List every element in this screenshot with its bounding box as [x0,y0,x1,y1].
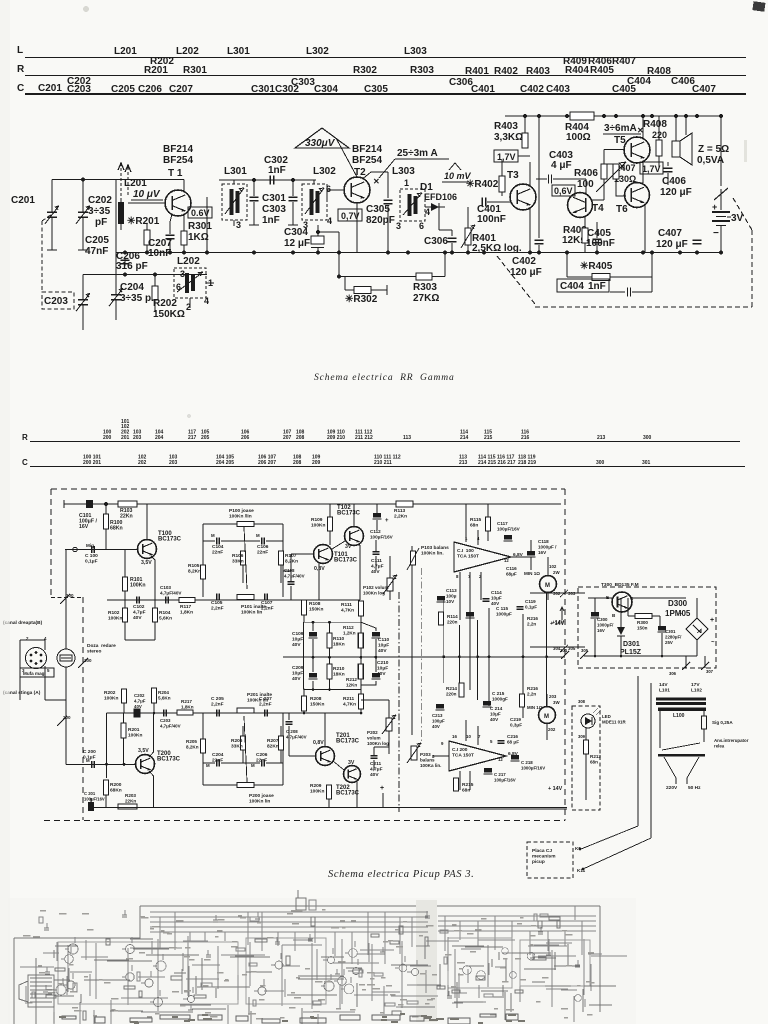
capacitor C210 [372,673,380,678]
svg-text:R205: R205 [186,739,197,744]
svg-text:picup: picup [532,859,545,865]
capacitor C207b [264,710,266,717]
svg-text:L102: L102 [691,688,702,694]
tone network upper [203,523,283,525]
+14V rail [566,504,568,808]
svg-text:C402: C402 [520,84,544,95]
svg-text:BF254: BF254 [352,155,382,166]
DIN connector [26,648,47,669]
picup connection lines [637,676,639,826]
svg-text:8,2Kn: 8,2Kn [188,569,201,575]
resistor R200 [104,780,109,795]
mains primary [664,757,676,784]
svg-text:R115: R115 [470,517,482,523]
power box bottom rail [584,655,697,657]
svg-text:22nF: 22nF [212,758,223,764]
resistor R104 [153,608,158,622]
capacitor C304 [316,230,320,234]
svg-text:3V: 3V [348,760,355,766]
op-amp CI100 [454,542,511,572]
wire L202 to rail [206,197,208,253]
op-amp shared columns [443,598,445,683]
svg-text:C109: C109 [292,631,304,637]
svg-text:150Kn: 150Kn [310,702,324,708]
svg-text:R209: R209 [310,783,322,789]
svg-text:Ans.intrerupator: Ans.intrerupator [714,738,749,743]
svg-text:−: − [713,228,719,239]
svg-text:209: 209 [312,460,321,466]
svg-text:Mig: Mig [86,543,94,548]
svg-text:R301: R301 [188,221,212,232]
svg-text:L: L [17,45,23,56]
svg-text:✕: ✕ [373,177,380,186]
svg-text:16V: 16V [538,550,547,555]
svg-text:C407: C407 [692,84,716,95]
capacitor C112 [373,513,381,518]
svg-text:200: 200 [103,435,112,441]
svg-text:218 219: 218 219 [518,460,536,466]
svg-text:L100: L100 [673,713,685,719]
svg-text:C.I 200: C.I 200 [452,747,468,753]
capacitor C107 [264,594,266,601]
svg-text:C306: C306 [424,236,448,247]
svg-text:M: M [544,714,549,720]
svg-text:68μF: 68μF [506,572,517,577]
voltage 0.6V [188,207,212,218]
svg-text:C406: C406 [662,176,686,187]
svg-text:C407: C407 [658,228,682,239]
svg-text:1000μF: 1000μF [496,612,512,617]
svg-text:C: C [22,458,28,467]
svg-text:R210: R210 [333,666,345,672]
svg-text:C300: C300 [597,617,608,622]
svg-text:1PM05: 1PM05 [665,609,691,618]
resistor R204 [152,688,157,703]
svg-text:25V: 25V [665,640,673,645]
fuse [702,716,707,729]
svg-text:214 215 216 217: 214 215 216 217 [478,460,516,466]
svg-text:R200: R200 [110,782,122,788]
svg-text:100μF: 100μF [432,719,445,724]
svg-text:R105: R105 [188,563,200,569]
audio top rail [505,115,722,117]
resistor R213 LED box [572,706,600,810]
svg-text:203: 203 [133,435,142,441]
svg-text:✳R201: ✳R201 [127,216,160,227]
svg-text:T5: T5 [614,135,626,146]
svg-text:C207: C207 [169,84,193,95]
lower bottom rail [91,807,567,809]
capacitor C108 [288,581,295,583]
resistor R112 [360,622,362,633]
transistor T4 [568,193,593,218]
PAS3 dashed border [51,488,565,490]
capacitor C102 [136,597,138,604]
svg-text:100Ka lin.: 100Ka lin. [420,763,441,768]
svg-text:C113: C113 [446,588,457,593]
svg-text:C 218: C 218 [521,760,533,765]
label mufa mag [20,668,54,677]
svg-text:1nF: 1nF [262,215,280,226]
svg-text:10 μV: 10 μV [133,189,161,200]
svg-text:Schema electrica Picup PAS 3.: Schema electrica Picup PAS 3. [328,869,474,880]
svg-text:10V: 10V [446,599,455,604]
resistor R105 [201,565,206,579]
capacitor C201 [51,180,53,213]
svg-text:B: B [612,613,616,618]
svg-text:6: 6 [176,282,181,292]
mid rail 2 [359,545,361,600]
svg-text:100μF/16V: 100μF/16V [497,527,521,532]
svg-text:C108: C108 [284,568,295,573]
svg-text:R303: R303 [410,65,434,76]
svg-text:120 μF: 120 μF [656,239,688,250]
resistor R404 [570,112,594,120]
svg-text:1,7V: 1,7V [497,152,516,162]
svg-text:220: 220 [652,130,667,140]
svg-text:L302: L302 [306,46,329,57]
wire triangle to T2 [336,138,357,177]
svg-text:MIN 1Ω: MIN 1Ω [524,571,540,576]
transistor T100 [138,540,157,559]
capacitor C105 [216,594,218,601]
transistor T201 [316,747,335,766]
svg-text:M: M [256,533,260,538]
diode D301 [617,627,625,635]
svg-text:0,1μF: 0,1μF [525,605,537,610]
svg-text:R408: R408 [643,119,667,130]
svg-text:R201: R201 [144,65,168,76]
svg-text:16: 16 [452,734,457,739]
svg-text:202: 202 [138,460,147,466]
bottom rail oamp [430,808,567,810]
voltage 0.6V T4 [552,185,575,196]
svg-text:100Kn: 100Kn [130,583,146,589]
svg-text:R300: R300 [637,620,648,625]
svg-text:8,2Kn: 8,2Kn [186,745,199,750]
wire T2 collector [363,172,388,179]
wire T202 emitter [356,780,358,808]
svg-text:1000μF /: 1000μF / [538,545,557,550]
svg-text:2: 2 [479,574,482,579]
svg-text:100μ: 100μ [446,594,457,599]
svg-text:22Kn: 22Kn [120,514,133,520]
svg-text:22nF: 22nF [256,758,267,764]
svg-text:L202: L202 [176,46,199,57]
svg-text:✳R405: ✳R405 [580,261,613,272]
svg-text:C403: C403 [546,84,570,95]
svg-text:BC173C: BC173C [334,558,358,564]
svg-text:stereo: stereo [87,649,101,655]
wire T5 base to resistors [604,149,624,151]
svg-text:C219: C219 [510,717,521,722]
main supply rail top [64,503,561,505]
svg-text:P103 balans: P103 balans [421,545,449,551]
svg-text:68Kn: 68Kn [110,526,123,532]
svg-text:305: 305 [581,648,589,653]
svg-text:C201: C201 [11,195,35,206]
capacitor C302 [269,176,271,185]
svg-text:pF: pF [95,217,107,228]
svg-text:R114: R114 [447,614,458,619]
svg-text:17V: 17V [691,682,700,688]
svg-text:203: 203 [549,694,557,699]
svg-text:R402: R402 [494,66,518,77]
svg-text:R212: R212 [346,677,357,682]
svg-text:68n: 68n [462,788,470,794]
svg-text:10μF: 10μF [377,666,388,672]
svg-text:1,8Kn: 1,8Kn [181,705,194,710]
svg-text:5: 5 [47,668,50,673]
svg-text:120 μF: 120 μF [660,187,692,198]
power supply dashed box [578,587,716,668]
svg-text:100Kn lin: 100Kn lin [249,799,270,805]
svg-text:0,6V: 0,6V [554,186,573,196]
svg-text:820pF: 820pF [366,215,395,226]
tone network lower [202,713,204,785]
transformer L100 [658,708,706,711]
svg-text:C206: C206 [138,84,162,95]
svg-text:203: 203 [169,460,178,466]
resistor R117 [179,598,195,603]
svg-text:10μF: 10μF [378,643,389,649]
svg-text:40V: 40V [378,648,387,654]
pot R401 [465,228,471,245]
svg-text:C204: C204 [212,752,224,758]
svg-text:volum: volum [367,736,381,741]
svg-text:EFD106: EFD106 [424,192,457,202]
svg-text:C301: C301 [262,193,286,204]
svg-text:2,2nF: 2,2nF [261,606,274,612]
capacitor C204 variable [115,275,117,295]
svg-text:BC173C: BC173C [157,757,181,763]
svg-text:R109: R109 [311,517,323,523]
svg-text:2,5KΩ log.: 2,5KΩ log. [472,243,522,254]
svg-text:C301: C301 [251,84,275,95]
svg-text:2,2nF: 2,2nF [211,606,224,612]
resistor R214 [459,683,464,697]
resistor R103 [118,501,137,507]
svg-text:3: 3 [396,221,401,231]
svg-text:M: M [86,758,90,763]
resistor R206 [241,736,246,750]
svg-text:P200 joase: P200 joase [249,793,274,799]
svg-text:22nF: 22nF [257,550,268,556]
svg-text:40V: 40V [490,717,499,722]
svg-text:2,2nF: 2,2nF [259,702,272,708]
svg-text:mecanism: mecanism [532,854,555,860]
svg-text:TCA 150T: TCA 150T [457,554,479,560]
resistor R303 [416,273,432,280]
svg-text:100Kn: 100Kn [128,733,142,739]
svg-text:40V: 40V [371,569,380,575]
svg-text:2W: 2W [553,570,560,575]
svg-text:100Ω: 100Ω [566,132,591,143]
svg-text:C303: C303 [291,77,315,88]
svg-text:R206: R206 [231,738,243,744]
svg-text:C117: C117 [497,521,508,526]
svg-text:C 200: C 200 [83,749,96,755]
svg-text:4: 4 [477,536,480,541]
transistor T6 [625,183,650,208]
faint left connector [140,905,600,907]
svg-text:C401: C401 [471,84,495,95]
svg-text:214: 214 [460,435,469,441]
svg-text:120 μF: 120 μF [510,267,542,278]
svg-text:200 201: 200 201 [83,460,101,466]
svg-text:2,2nF: 2,2nF [211,702,224,708]
svg-text:C106: C106 [257,544,269,550]
svg-text:C119: C119 [525,599,536,604]
wire R406 bottom to T4 base [603,179,605,200]
transistor T101 [314,545,333,564]
svg-text:+14V: +14V [552,620,564,626]
svg-text:16V: 16V [79,524,89,530]
svg-text:R403: R403 [494,121,518,132]
transistor T3 [510,184,536,210]
lower chain rail [107,712,204,714]
balance dashdot link [421,568,423,744]
wire T100 emitter [151,556,155,600]
capacitor C301 [253,180,255,196]
svg-text:205: 205 [201,435,210,441]
svg-text:1: 1 [465,536,468,541]
svg-text:C202: C202 [88,195,112,206]
svg-text:3V: 3V [345,544,352,550]
svg-text:C 208: C 208 [286,729,298,734]
svg-text:100μF/16V: 100μF/16V [494,778,516,783]
svg-text:C204: C204 [120,282,144,293]
svg-text:R202: R202 [153,298,177,309]
svg-text:R405: R405 [590,65,614,76]
svg-text:E: E [606,595,609,600]
svg-text:2280μF/: 2280μF/ [665,635,682,640]
svg-text:100Kn: 100Kn [310,789,324,795]
svg-text:150n: 150n [637,626,648,631]
svg-text:L301: L301 [224,166,247,177]
svg-text:40V: 40V [377,671,386,677]
svg-text:150Kn: 150Kn [309,607,323,613]
svg-text:R214: R214 [446,686,457,691]
lower tone feed rail [203,712,361,714]
svg-text:12 μF: 12 μF [284,238,310,249]
transistor T200 [136,755,155,774]
svg-text:L301: L301 [227,46,250,57]
svg-text:C110: C110 [378,637,390,643]
svg-text:C206: C206 [256,752,268,758]
svg-text:R302: R302 [353,65,377,76]
svg-text:R216: R216 [527,686,538,691]
svg-text:27KΩ: 27KΩ [413,293,439,304]
svg-text:12: 12 [504,558,509,563]
svg-text:211 212: 211 212 [355,435,373,441]
resistor R217 [177,710,193,715]
svg-text:C205: C205 [85,235,109,246]
svg-text:18Kn: 18Kn [333,642,345,648]
svg-text:P202: P202 [367,730,378,735]
svg-text:R215: R215 [462,782,474,788]
svg-text:Doza redare: Doza redare [87,643,116,649]
svg-text:209 210: 209 210 [327,435,345,441]
transistor T1 [165,190,191,216]
svg-text:316 pF: 316 pF [116,261,148,272]
capacitor C104 [216,538,218,545]
svg-text:C 217: C 217 [494,772,506,777]
svg-text:25÷3m A: 25÷3m A [397,148,438,159]
pot P101 [237,595,254,600]
svg-text:+ 14V: + 14V [548,786,563,792]
svg-text:3,5V: 3,5V [141,560,152,566]
resistor R102 [123,608,128,622]
svg-text:Sig 0,25A: Sig 0,25A [712,720,733,725]
svg-text:213: 213 [459,460,468,466]
svg-text:4,7μF: 4,7μF [133,610,146,616]
svg-text:relea: relea [714,744,725,749]
svg-text:T300 BD135 F.M: T300 BD135 F.M [601,582,639,588]
resistor R203 [118,804,137,809]
svg-text:0,1μF: 0,1μF [85,559,98,565]
head wires [44,640,46,650]
svg-text:3: 3 [180,269,185,279]
svg-text:0,3μF: 0,3μF [510,723,522,728]
main bottom rail [116,252,722,254]
svg-text:4,7μF: 4,7μF [371,564,384,570]
svg-text:68 μF: 68 μF [507,740,519,745]
svg-text:C209: C209 [292,665,304,671]
svg-text:C105: C105 [211,600,223,606]
svg-text:307: 307 [706,669,714,674]
wire L302 base T2 [327,189,344,191]
svg-text:C203: C203 [160,718,171,723]
svg-text:8,2Kn: 8,2Kn [285,559,298,565]
resistor R300 [635,614,652,619]
battery 3V [720,116,722,186]
svg-text:R117: R117 [180,604,192,610]
svg-text:R213: R213 [590,754,601,759]
svg-text:4,7μF: 4,7μF [370,767,383,773]
svg-text:R106: R106 [232,553,244,559]
svg-text:4,7μF/40V: 4,7μF/40V [160,724,181,729]
svg-text:1000gF: 1000gF [492,697,508,702]
svg-text:~: ~ [679,612,683,618]
mid rail upper [107,599,360,601]
label C203 dashed box [42,292,74,309]
svg-text:0,8V: 0,8V [313,740,324,746]
svg-text:82Kn: 82Kn [267,744,279,750]
svg-text:10μF: 10μF [292,637,303,643]
svg-text:+: + [712,202,717,212]
svg-text:R208: R208 [310,696,322,702]
svg-text:LED: LED [602,714,611,719]
capacitor C208 [286,721,293,723]
svg-text:M: M [206,763,210,768]
svg-text:100Kn log: 100Kn log [363,591,385,596]
svg-text:3W: 3W [553,700,560,705]
capacitor C202 [82,180,84,213]
svg-text:C301: C301 [665,629,676,634]
svg-text:C203: C203 [44,296,68,307]
svg-text:C102: C102 [133,604,145,610]
inductor L201 [120,198,122,230]
svg-text:4,7Kn: 4,7Kn [343,702,356,708]
svg-text:C202: C202 [134,693,145,698]
svg-text:208: 208 [296,435,305,441]
faint schematic background [8,898,636,1024]
svg-text:2,2n: 2,2n [527,622,536,627]
svg-text:D301: D301 [623,641,640,648]
svg-text:68Kn: 68Kn [110,788,122,794]
svg-text:3÷6mA: 3÷6mA [604,123,637,134]
